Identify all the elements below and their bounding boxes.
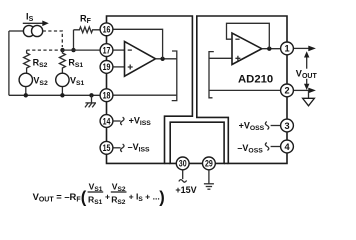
svg-text:): )	[159, 189, 165, 207]
input section box (AD210 left/input side)	[107, 16, 193, 163]
pin 29	[203, 157, 216, 170]
arrow: pin 2 output arrowhead	[308, 88, 316, 94]
svg-text:+ IS + ...: + IS + ...	[129, 192, 160, 203]
ground: earth symbol at pin 29	[204, 184, 214, 189]
svg-text:(: (	[81, 189, 87, 207]
wire: barrier to U2 non-inverting input	[209, 57, 232, 59]
arrow: VOUT polarity up	[304, 51, 309, 68]
svg-text:1: 1	[284, 44, 289, 54]
resistor RS2	[24, 50, 30, 73]
ground: output common (open triangle)	[303, 98, 315, 106]
wire: pin18 to input barrier return	[113, 94, 177, 96]
wire: left vertical rail from current source to bottom rail	[8, 31, 10, 95]
wire: pin 3 external lead	[271, 125, 281, 127]
arrow: IS direction arrow	[23, 21, 49, 27]
node B (junction dot, RF tap)	[71, 48, 75, 52]
wire: node A to pin 17	[62, 49, 100, 51]
wire: bottom common rail	[9, 94, 100, 96]
squiggle: pin 15 external	[121, 144, 124, 152]
svg-text:+: +	[105, 192, 110, 202]
svg-text:AD210: AD210	[238, 73, 273, 85]
wire: pin 29 to ground	[208, 170, 210, 184]
isolation barrier coupling (output side bracket)	[209, 52, 214, 98]
svg-text:15: 15	[103, 143, 111, 153]
resistor RS1	[59, 50, 65, 73]
wire: pin 2 to output arrow	[294, 89, 309, 91]
pin 30	[176, 157, 189, 170]
svg-text:+15V: +15V	[175, 185, 196, 195]
arrow: VOUT polarity down	[304, 79, 309, 90]
label U1 plus	[128, 65, 133, 70]
pin 4	[281, 140, 294, 153]
wire: bottom edge gap fillers	[165, 162, 229, 164]
formula: VOUT = -RF (VS1/RS1 + VS2/RS2 + IS + ...)	[33, 182, 165, 207]
pin 1	[281, 42, 294, 55]
wire: VS1 to bottom rail	[61, 87, 63, 96]
svg-text:14: 14	[103, 116, 111, 126]
voltage source VS1	[56, 73, 69, 86]
wire: pin 30 stub	[182, 170, 184, 179]
pin 19	[100, 61, 113, 74]
squiggle: pin 30 supply	[179, 180, 187, 183]
wire: pin 15 external lead	[113, 147, 120, 149]
wire: VS2 to bottom rail	[25, 87, 27, 96]
wire: pin 1 to output arrow	[294, 47, 309, 49]
pin 16	[100, 23, 113, 36]
junction: VS1/rail	[60, 93, 64, 97]
svg-text:17: 17	[103, 45, 111, 55]
svg-text:29: 29	[205, 159, 213, 169]
wire: stub to output common triangle	[308, 90, 310, 98]
wire: pin19 to input op-amp non-inverting input	[113, 66, 124, 68]
wire: barrier return to pin 2	[209, 89, 280, 91]
pin 14	[100, 115, 113, 128]
svg-text:3: 3	[284, 121, 289, 131]
node: U2 output junction	[267, 47, 271, 51]
wire: U2 feedback loop	[227, 23, 270, 48]
squiggle: pin 3 external	[265, 122, 268, 130]
arrow: pin 1 output arrowhead	[308, 46, 316, 52]
op-amp U2 (output buffer)	[232, 33, 262, 64]
wire: current source left lead	[9, 30, 24, 32]
svg-text:18: 18	[103, 91, 111, 101]
svg-text:4: 4	[284, 142, 290, 152]
pin 18	[100, 89, 113, 102]
node: U1 output junction	[160, 57, 164, 61]
wire: dashed from current source to node A	[43, 31, 63, 47]
pin 15	[100, 141, 113, 154]
wire: U1 output to junction	[156, 58, 177, 60]
power section box	[170, 122, 224, 163]
output section box (AD210 right/output side)	[197, 16, 287, 163]
wire: dashed from RS2 top to node A	[27, 49, 59, 51]
label U2 plus	[235, 56, 240, 61]
junction: ground tap on rail	[89, 93, 93, 97]
svg-text:2: 2	[284, 86, 289, 96]
squiggle: pin 4 external	[265, 143, 268, 151]
wire: pin 14 external lead	[113, 120, 120, 122]
wire: pin 4 external lead	[271, 146, 281, 148]
ground (chassis)	[85, 95, 96, 107]
junction: VS2/rail	[24, 93, 28, 97]
pin 2	[281, 84, 294, 97]
wire: U2 output to pin 1	[262, 48, 280, 50]
label U2 minus	[235, 38, 239, 40]
pin 17	[100, 44, 113, 57]
current source IS (two overlapping circles)	[23, 25, 42, 36]
pin 3	[281, 119, 294, 132]
op-amp U1 (input amplifier)	[125, 42, 156, 77]
isolation barrier coupling (input side bracket)	[172, 51, 177, 101]
label U1 minus	[128, 49, 132, 51]
wire: RF left lead down to node B	[73, 30, 75, 48]
wire: feedback from output up and left to pin 16	[113, 29, 162, 59]
node A (junction dot, summing node)	[60, 48, 64, 52]
svg-text:16: 16	[103, 25, 111, 35]
wire: pin17 to input op-amp inverting input	[113, 49, 124, 51]
svg-text:19: 19	[103, 62, 111, 72]
svg-text:30: 30	[179, 159, 187, 169]
voltage source VS2	[19, 73, 32, 86]
resistor RF	[74, 27, 100, 33]
squiggle: pin 14 external	[121, 117, 124, 125]
